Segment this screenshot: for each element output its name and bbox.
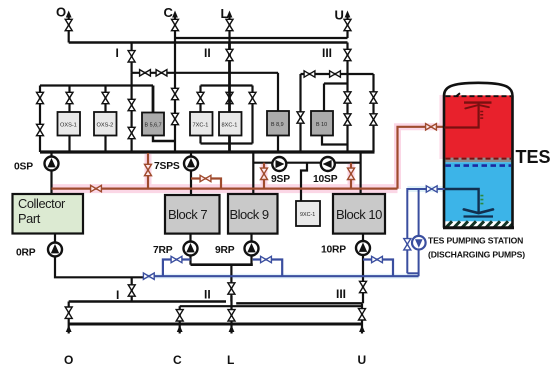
wire: 7XC-1 to subbus (199, 136, 201, 144)
valve blue bowtie 9RP tap (261, 256, 272, 262)
node C riser wire (174, 14, 176, 43)
pump TES discharging (412, 236, 426, 250)
BOTTOM (64, 277, 366, 367)
valve I line b (128, 127, 135, 138)
TES blue diffuser base (464, 215, 494, 217)
wire: top main bus O-U (69, 41, 348, 44)
wire blue: TES outlet (407, 189, 444, 273)
valve bypass mid (249, 92, 256, 103)
wire red: 7SPS branch (191, 179, 221, 189)
red pipe network (52, 124, 446, 192)
valve I bottom (128, 285, 135, 296)
TES red diffuser header (464, 101, 492, 103)
box B 10 (311, 111, 333, 136)
svg-text:C: C (164, 5, 174, 20)
RPROW (16, 233, 419, 304)
wire: SP link 9/10 (253, 162, 360, 164)
valve blue bowtie main (143, 273, 154, 279)
arrow U up (345, 11, 351, 18)
TES red diffuser umbrella (465, 105, 489, 108)
wire: U inner branch (346, 84, 348, 153)
valve red bowtie 7SPS branch (200, 175, 211, 181)
svg-text:7RP: 7RP (153, 245, 173, 256)
valve blue bowtie 7RP tap (171, 256, 182, 262)
wire: 7RP drop (189, 234, 191, 265)
box Block 7 (165, 195, 220, 234)
HALOS (52, 95, 445, 276)
valve bowtie link1 b (156, 70, 167, 76)
svg-text:10RP: 10RP (321, 245, 346, 256)
valve red bowtie TES inlet (426, 124, 437, 130)
valve II drop (228, 283, 235, 294)
wire blue: main return (144, 275, 419, 277)
valve on U riser (344, 19, 351, 30)
svg-text:9SP: 9SP (271, 174, 290, 185)
TES red internal diffuser pipe (445, 102, 479, 128)
TES tank top dashed line (446, 95, 512, 97)
wire: drop I from top bus (131, 43, 133, 73)
valve I top (128, 51, 135, 62)
wire: middle subbus (201, 142, 253, 144)
arrow O bottom up (66, 325, 72, 332)
valve bypass2 a (370, 92, 377, 103)
pump 7RP (184, 242, 198, 256)
svg-text:III: III (322, 46, 332, 60)
wire: 7XC-1 branch (199, 86, 201, 113)
wire: 10RP drop (362, 234, 364, 304)
node O riser wire (68, 14, 70, 43)
svg-text:B 5,6,7: B 5,6,7 (145, 123, 162, 129)
pump 0RP (48, 243, 62, 257)
valve blue bowtie 10RP tap (372, 256, 383, 262)
valve bowtie link2 b (330, 71, 341, 77)
svg-text:L: L (227, 353, 234, 367)
box B 5,6,7 (142, 113, 164, 136)
valve U bottom (359, 309, 366, 320)
wire blue: 10RP tap (363, 260, 393, 276)
wire blue: 9RP tap (253, 260, 282, 277)
wire: B89 feed (277, 73, 279, 111)
TES tank red hot zone (445, 95, 512, 158)
svg-text:B 8,9: B 8,9 (271, 122, 284, 128)
box Block 10 (333, 194, 385, 234)
wire: drop III from top bus (U line) (346, 43, 348, 84)
box OXS-1 (58, 112, 81, 136)
wire: OXS-1 branch (68, 86, 70, 113)
wire red: 10SP red drop (350, 163, 352, 189)
pump 7SPS (184, 157, 198, 171)
svg-text:I: I (116, 288, 119, 302)
pump 10RP (356, 241, 370, 255)
box 9XC-1 (296, 201, 320, 226)
valve on O riser (65, 19, 72, 30)
wire red: SP header (52, 188, 398, 190)
wire: I line lower (131, 73, 133, 152)
valve left edge a (37, 92, 44, 103)
wire halo: tank wall pink strip (439, 95, 444, 159)
wire: middle group frame top (201, 84, 253, 86)
wire: B567 feed (152, 86, 155, 113)
pump 0SP (45, 157, 59, 171)
pump 9SP (272, 157, 286, 171)
valve bowtie link1 a (140, 70, 151, 76)
wire: OXS-2 branch (104, 86, 106, 113)
wire red: TES riser (398, 127, 446, 189)
wire: bypass1 line (299, 74, 301, 152)
wire: bypass2 line (372, 74, 374, 152)
wire: bottom main bus (69, 323, 362, 326)
box Collector Part (13, 194, 84, 234)
TES tank dome (444, 83, 513, 96)
wire: 9RP drop (250, 234, 252, 265)
node U riser wire (346, 14, 348, 38)
valve red bowtie header (91, 185, 102, 191)
TES level tick (457, 93, 461, 96)
node L riser wire (228, 14, 230, 43)
svg-text:0RP: 0RP (16, 248, 36, 259)
wire: link line I-to-B89 (132, 72, 278, 74)
svg-text:OXS-2: OXS-2 (97, 123, 114, 129)
wire: U bottom drop (361, 303, 363, 333)
valve C line b (172, 113, 179, 124)
svg-text:Block 9: Block 9 (230, 207, 269, 222)
arrow O up (66, 11, 72, 18)
TOPSECTION (56, 5, 374, 86)
TES tank shell outline (444, 96, 513, 228)
box 7XC-1 (190, 112, 213, 136)
svg-text:8XC-1: 8XC-1 (222, 123, 238, 129)
wire: OXS-1 to bus (68, 136, 70, 153)
svg-text:Part: Part (18, 211, 41, 226)
svg-text:I: I (116, 46, 119, 60)
valve 8XC-1 (226, 92, 233, 103)
svg-text:9RP: 9RP (215, 245, 235, 256)
svg-text:10SP: 10SP (313, 174, 338, 185)
svg-text:II: II (204, 46, 211, 60)
svg-text:II: II (204, 288, 211, 302)
box B 8,9 (267, 111, 289, 136)
arrow C bottom up (177, 325, 183, 332)
svg-text:O: O (56, 5, 66, 20)
valve OXS-1 (66, 92, 73, 103)
valve L bottom (228, 310, 235, 321)
wire: bottom bus B (180, 305, 362, 307)
valve C line a (172, 88, 179, 99)
valve on C riser (172, 19, 179, 30)
pump 9RP (245, 242, 259, 256)
wire: 0SP drop (50, 152, 52, 195)
TES blue diffuser ticks (480, 196, 483, 204)
wire halo: red drop 9SP glow (261, 164, 268, 188)
svg-text:9XC-1: 9XC-1 (300, 212, 315, 218)
wire blue: 7RP tap (163, 260, 191, 277)
wire: left group frame top (40, 84, 153, 86)
wire: B10 bottom link (322, 136, 348, 145)
valve blue leg (404, 239, 411, 250)
wire: 8XC to subbus and bus (228, 136, 231, 153)
TES tank bottom hatch band (444, 221, 513, 227)
SPROW (14, 124, 445, 226)
wire halo: red TES riser glow (398, 127, 445, 189)
svg-text:Block 7: Block 7 (168, 207, 207, 222)
wire halo: blue main glow (145, 274, 419, 279)
wire: bypass mid branch (251, 86, 253, 144)
arrow U bottom up (359, 325, 365, 332)
TES red diffuser ticks (480, 112, 483, 119)
svg-text:OXS-1: OXS-1 (60, 123, 77, 129)
svg-text:L: L (221, 6, 229, 21)
valve bowtie link2 a (304, 71, 315, 77)
TES (404, 83, 550, 276)
TES tank bottom line (443, 226, 514, 229)
valve 7XC-1 (197, 92, 204, 103)
svg-text:Collector: Collector (18, 196, 66, 211)
TES tank cold dashed navy (446, 164, 512, 167)
valve bypass1 (297, 112, 304, 123)
svg-text:III: III (336, 287, 346, 301)
valve red drop 10SP (348, 168, 355, 179)
valve I line a (128, 99, 135, 110)
valve C bottom (176, 310, 183, 321)
TES blue diffuser dish (464, 209, 493, 213)
valve 10RP drop (360, 281, 367, 292)
wire: O bottom drop (68, 302, 70, 334)
wire halo: TES blue outlet glow (407, 186, 444, 192)
wire: link line byp1-to-byp2 (301, 73, 374, 75)
svg-text:U: U (358, 353, 367, 367)
blue pipe network (143, 256, 418, 279)
wire: OXS-2 to bus (104, 136, 106, 153)
wire: L line 85-112 (228, 86, 231, 113)
wire: B10 inner frame (324, 82, 348, 84)
valve bypass2 b (370, 114, 377, 125)
GROUPS (37, 43, 378, 153)
valve red drop 9SP (261, 168, 268, 179)
wire: top second bus C-U (175, 37, 348, 39)
wire: block9 feed (252, 152, 254, 194)
wire: C bottom drop (179, 306, 181, 333)
svg-text:U: U (335, 8, 344, 23)
svg-text:7SPS: 7SPS (154, 161, 180, 172)
box 8XC-1 (219, 112, 242, 136)
wire: B89 to bus (277, 136, 279, 153)
wire: 9XC-1 feed (301, 163, 307, 201)
valve III top (344, 49, 351, 60)
svg-text:TES PUMPING STATION: TES PUMPING STATION (428, 236, 523, 246)
arrow L up (227, 11, 233, 18)
wire red: 9SP red drop (263, 163, 265, 189)
valve II top (226, 49, 233, 60)
valve OXS-2 (102, 92, 109, 103)
svg-text:O: O (64, 353, 73, 367)
wire: B567 bottom to C line (153, 136, 175, 142)
valve U inner b (344, 114, 351, 125)
wire: drop I lower (131, 277, 133, 301)
wire halo: red drop 10SP glow (348, 164, 355, 188)
valve O bottom (65, 307, 72, 318)
blue discharge piping (404, 186, 445, 276)
wire: block10 feed (360, 152, 362, 194)
wire halo: red SP header glow (52, 184, 398, 193)
wire halo: red drop 7SPS glow (145, 154, 152, 188)
wire: B10 feed (323, 84, 325, 112)
wire red: 7SPS red drop (147, 153, 149, 189)
valve blue bowtie TES outlet (426, 186, 437, 192)
arrow L bottom up (229, 325, 235, 332)
wire: bottom bus A2 (236, 302, 362, 304)
TES tank thermocline gray band (445, 158, 512, 163)
wire: left frame edge branch (39, 86, 41, 153)
TES blue internal pipe (445, 189, 479, 212)
box OXS-2 (94, 112, 117, 136)
svg-text:C: C (173, 353, 182, 367)
wire blue: leg join (407, 272, 418, 274)
svg-text:(DISCHARGING PUMPS): (DISCHARGING PUMPS) (428, 250, 525, 260)
wire: RP header (191, 263, 253, 266)
wire: C line lower (174, 43, 176, 153)
wire: 7SPS drop (190, 152, 192, 195)
wire: L bottom drop (230, 296, 232, 334)
TES tank blue cold zone (445, 162, 512, 221)
svg-text:0SP: 0SP (14, 162, 33, 173)
wire: SP bus (bottom of upper section) (40, 150, 375, 153)
pump 10SP (321, 157, 335, 171)
svg-text:7XC-1: 7XC-1 (193, 123, 209, 129)
svg-text:TES: TES (516, 147, 550, 167)
valve on L riser (226, 19, 233, 30)
wire: drop II from top bus (L line) (228, 43, 231, 86)
wire: 0RP drop (55, 233, 145, 278)
valve left edge b (37, 124, 44, 135)
arrow C up (172, 11, 178, 18)
svg-text:B 10: B 10 (316, 122, 327, 128)
wire: bottom bus A1 (69, 300, 226, 302)
valve U inner a (344, 92, 351, 103)
TES tank thermocline dashed red (446, 158, 512, 160)
svg-text:Block 10: Block 10 (336, 207, 382, 222)
box Block 9 (228, 194, 278, 234)
wire: II drop upper (230, 265, 232, 302)
valve red drop 7SPS (145, 164, 152, 175)
wire blue: pump leg (418, 189, 420, 276)
BOXROW (13, 194, 386, 234)
